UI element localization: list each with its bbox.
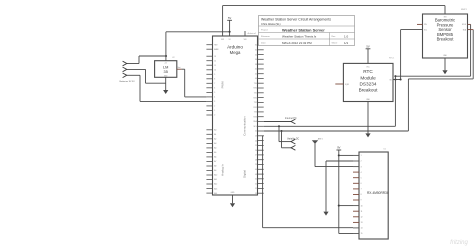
wire SDA long horizontal	[264, 125, 396, 127]
svg-text:M/Feb 2012 21:32 PM: M/Feb 2012 21:32 PM	[282, 41, 312, 45]
svg-text:13: 13	[361, 222, 363, 224]
pin BMP VIN left stub unconnected	[417, 23, 423, 25]
power +9V flag for radio	[336, 146, 341, 150]
power +5V flag above RTC	[366, 45, 371, 49]
svg-text:Date:: Date:	[261, 42, 266, 45]
svg-text:A6: A6	[214, 156, 216, 159]
wire 3V3 rail top horizontal	[223, 5, 445, 7]
svg-text:Mega: Mega	[230, 50, 241, 55]
wire SCL branch to aux pin	[282, 147, 292, 149]
svg-text:AREF: AREF	[214, 48, 219, 51]
svg-text:RST: RST	[214, 44, 217, 46]
svg-text:A8: A8	[214, 165, 216, 168]
ground GND below LM35	[163, 90, 168, 94]
svg-text:Variable DC: Variable DC	[287, 137, 300, 140]
wire LM35 Vs vertical	[165, 32, 167, 61]
wire 9V vertical rail	[338, 150, 340, 234]
pin RTC SQW stub	[335, 83, 343, 85]
power +5V flag above Arduino 5V pin	[227, 16, 232, 20]
sensor U2 LM35 body	[155, 61, 177, 78]
svg-text:BMP1: BMP1	[461, 9, 468, 11]
svg-text:1.0: 1.0	[344, 35, 349, 39]
svg-text:13: 13	[214, 56, 216, 58]
pin RTC SS stub wire	[393, 79, 401, 81]
svg-text:5: 5	[214, 92, 215, 94]
svg-text:RTC1: RTC1	[389, 58, 395, 60]
svg-text:Module: Module	[360, 75, 376, 80]
wire 9V to RX pin 15	[339, 233, 353, 235]
svg-text:ANT1: ANT1	[318, 138, 323, 141]
svg-text:22: 22	[255, 131, 257, 133]
svg-text:9: 9	[361, 200, 362, 202]
wire RTC GND down	[367, 102, 369, 134]
svg-text:Chris Abela (SL): Chris Abela (SL)	[261, 22, 281, 26]
svg-text:RTC: RTC	[363, 69, 373, 74]
svg-text:RX1: RX1	[254, 97, 257, 99]
wire antenna to RX pin 3	[315, 166, 353, 168]
wire LM35 Vout stub	[177, 68, 182, 70]
svg-text:TX0: TX0	[254, 83, 257, 85]
node junction net1 top	[394, 75, 396, 77]
svg-text:SCL: SCL	[424, 29, 427, 31]
svg-text:RX-4M50RR30: RX-4M50RR30	[367, 191, 389, 195]
RTC module RTC1 DS3234 breakout body	[343, 63, 393, 101]
wire 5V horizontal from LM35 supply	[166, 31, 230, 33]
svg-text:Batteries 9V 5V: Batteries 9V 5V	[120, 80, 136, 83]
svg-text:TX3: TX3	[254, 112, 257, 114]
svg-text:A2: A2	[214, 138, 216, 141]
svg-text:1: 1	[361, 155, 362, 157]
ground GND below RTC	[365, 133, 370, 137]
svg-text:Weather Station Server: Weather Station Server	[282, 27, 325, 32]
svg-text:Breakout: Breakout	[437, 37, 455, 42]
svg-text:15: 15	[361, 233, 363, 235]
svg-text:Sheet:: Sheet:	[332, 42, 338, 45]
wire 3V3 vertical to Arduino top pin	[222, 6, 224, 36]
pins Arduino left column with labels	[206, 44, 218, 194]
connector Internet PC pin	[291, 119, 295, 124]
wire header pin3 vertical	[139, 75, 141, 101]
svg-text:TX2: TX2	[254, 102, 257, 104]
svg-text:A7: A7	[214, 160, 216, 163]
svg-text:2: 2	[214, 106, 215, 108]
svg-text:7: 7	[214, 83, 215, 85]
svg-text:26: 26	[255, 150, 257, 152]
svg-text:A9: A9	[214, 169, 216, 172]
wire BMP left pin2 vertical down to RTC SS	[400, 30, 402, 80]
svg-text:30: 30	[255, 45, 257, 47]
svg-text:Breakout: Breakout	[359, 88, 378, 93]
node junction LM35 supply	[165, 55, 167, 57]
radio receiver U1 RX-4M50R body	[359, 152, 388, 239]
svg-text:DS3234: DS3234	[360, 81, 377, 86]
svg-text:46: 46	[255, 169, 257, 171]
antenna ANT1 symbol	[312, 140, 318, 144]
wire radio data horizontal to RX pin 14	[263, 227, 353, 229]
wire header pin1 to LM35 supply horizontal	[139, 55, 166, 57]
svg-text:SCL: SCL	[254, 126, 257, 128]
svg-text:6: 6	[214, 88, 215, 90]
svg-text:14: 14	[361, 228, 363, 230]
svg-text:Project:: Project:	[261, 29, 268, 32]
svg-text:5V: 5V	[366, 45, 369, 49]
wire RX pin2 to ground horizontal	[326, 160, 353, 162]
svg-text:5: 5	[361, 177, 362, 179]
svg-text:A14: A14	[214, 192, 217, 195]
wire header pin3 horizontal	[127, 74, 140, 76]
ground GND below Arduino	[230, 203, 235, 207]
node junction RTC SS with I2C vertical	[394, 78, 396, 80]
pin BMP SCLK right stub	[468, 23, 471, 25]
svg-text:27: 27	[255, 155, 257, 157]
svg-text:12: 12	[214, 60, 216, 62]
svg-text:Digital: Digital	[243, 170, 247, 178]
sensor BMP1 barometric pressure BMP085 breakout body	[423, 14, 468, 58]
wire LM35 Vout vertical	[184, 69, 186, 97]
svg-text:52: 52	[255, 183, 257, 185]
svg-text:SS: SS	[389, 79, 391, 81]
svg-text:A12: A12	[214, 183, 217, 186]
svg-text:5V: 5V	[228, 16, 231, 20]
svg-text:A1: A1	[214, 133, 216, 136]
svg-text:Weather Station Server Circuit: Weather Station Server Circuit Arrangeme…	[261, 18, 331, 22]
svg-text:28: 28	[255, 159, 257, 161]
svg-text:RX3: RX3	[254, 116, 257, 118]
wire RX ground vertical	[325, 161, 327, 212]
svg-text:Communication: Communication	[243, 116, 247, 136]
svg-text:11: 11	[361, 211, 363, 213]
svg-text:3: 3	[361, 166, 362, 168]
svg-text:0: 0	[214, 115, 215, 117]
svg-text:50: 50	[255, 179, 257, 181]
wire 9V to RX pin 1	[339, 154, 353, 156]
svg-text:A13: A13	[214, 187, 217, 190]
svg-text:PWM: PWM	[221, 81, 225, 89]
svg-text:11: 11	[214, 65, 216, 67]
wire net2 vertical mid	[407, 79, 409, 131]
svg-text:25: 25	[255, 145, 257, 147]
wire BMP GND down	[444, 58, 446, 70]
wire net2 vertical right edge	[472, 30, 474, 79]
svg-text:A11: A11	[214, 178, 217, 181]
wire 5V vertical into Arduino 5V pin	[229, 20, 231, 36]
wire Arduino GND down	[232, 195, 234, 203]
wire SCL long horizontal	[264, 130, 409, 132]
microcontroller Arduino1 Arduino Mega body	[213, 36, 258, 195]
svg-text:A10: A10	[214, 174, 217, 177]
svg-text:fritzing: fritzing	[450, 240, 468, 246]
svg-text:3V3: 3V3	[444, 17, 447, 19]
wire header pin3 to Arduino analog pin	[140, 100, 206, 102]
svg-text:RX0: RX0	[254, 88, 257, 90]
wire 5V into RTC VCC pin	[367, 49, 369, 64]
svg-text:10: 10	[361, 205, 363, 207]
svg-text:36: 36	[255, 59, 257, 61]
node junction 9V to RX pin1	[338, 154, 340, 156]
svg-text:1/1: 1/1	[344, 41, 349, 45]
wire header pin1 stub	[127, 63, 139, 65]
wire antenna vertical	[314, 144, 316, 167]
connector J1 battery header pin 2	[123, 67, 127, 72]
svg-text:40: 40	[255, 69, 257, 71]
svg-text:Analog In: Analog In	[221, 164, 225, 176]
connector aux pin 1	[291, 139, 295, 144]
svg-text:9: 9	[214, 74, 215, 76]
svg-text:7: 7	[361, 189, 362, 191]
svg-text:TX1: TX1	[254, 93, 257, 95]
svg-text:3V3: 3V3	[221, 39, 224, 41]
svg-text:Internet PC: Internet PC	[285, 117, 297, 120]
wire net1 vertical right edge	[470, 24, 472, 76]
wire serial to Internet PC	[264, 121, 291, 123]
svg-text:Arduino1: Arduino1	[248, 32, 258, 35]
svg-text:34: 34	[255, 54, 257, 56]
wire net2 horizontal upper	[408, 78, 473, 80]
pins RX left column with numbers	[353, 155, 363, 235]
wire header pin2 to LM35 GND	[146, 82, 166, 84]
node junction 9V to RX pin10	[338, 205, 340, 207]
svg-text:9V: 9V	[337, 146, 340, 150]
svg-text:RX2: RX2	[254, 107, 257, 109]
pin BMP SDA right stub	[468, 29, 474, 31]
svg-text:32: 32	[255, 50, 257, 52]
title block frame	[259, 16, 355, 46]
wire header pin2 horizontal	[127, 68, 146, 70]
ground GND below BMP085	[442, 70, 447, 74]
svg-text:1: 1	[214, 110, 215, 112]
wire header pin2 vertical	[145, 69, 147, 83]
svg-text:8: 8	[361, 194, 362, 196]
wire LM35 GND pin down	[165, 77, 167, 90]
node junction SCL branch	[280, 130, 282, 132]
svg-text:A5: A5	[214, 151, 216, 154]
connector J1 battery header pin 1	[123, 61, 127, 66]
wire net1 horizontal upper	[395, 75, 470, 77]
wire radio data vertical from Arduino	[263, 135, 264, 137]
svg-text:35: 35	[164, 69, 168, 74]
svg-text:4: 4	[361, 172, 362, 174]
svg-text:8: 8	[214, 79, 215, 81]
svg-text:6: 6	[361, 183, 362, 185]
svg-text:29: 29	[255, 164, 257, 166]
node junction 5V at Arduino pin	[229, 31, 231, 33]
svg-text:44: 44	[255, 78, 257, 80]
svg-text:48: 48	[255, 174, 257, 176]
svg-text:A4: A4	[214, 147, 216, 150]
svg-text:51: 51	[255, 188, 257, 190]
svg-text:23: 23	[255, 136, 257, 138]
wire BMP left pin2 horizontal	[401, 29, 423, 31]
pin Arduino VIN top stub	[244, 31, 246, 36]
svg-text:2: 2	[361, 161, 362, 163]
svg-text:SQW: SQW	[345, 84, 349, 86]
svg-text:12: 12	[361, 217, 363, 219]
wire SDA branch to aux pin	[279, 141, 291, 143]
svg-text:+Vs: +Vs	[164, 63, 167, 65]
wire 9V to RX pin 10	[339, 205, 353, 207]
ground GND for radio	[323, 212, 328, 216]
node junction SDA branch	[278, 125, 280, 127]
svg-text:Weather Station Thesis.fz: Weather Station Thesis.fz	[282, 35, 317, 39]
wire LM35 Vout to Arduino analog pin	[185, 96, 207, 98]
svg-text:3: 3	[214, 101, 215, 103]
connector J1 battery header pin 3	[123, 73, 127, 78]
connector aux pin 2	[291, 145, 295, 150]
wire SCL branch vertical	[281, 131, 283, 148]
wire header pin1 vertical	[138, 56, 140, 64]
svg-text:4: 4	[214, 97, 215, 99]
svg-text:42: 42	[255, 73, 257, 75]
svg-text:Rev:: Rev:	[332, 36, 337, 38]
svg-text:53: 53	[255, 193, 257, 195]
svg-text:Filename:: Filename:	[261, 36, 271, 38]
pins Arduino right column with labels	[253, 45, 263, 195]
svg-text:A0: A0	[214, 129, 216, 132]
node junction RTC SS with BMP wire	[400, 78, 402, 80]
svg-text:38: 38	[255, 64, 257, 66]
wire SDA branch vertical	[278, 126, 280, 141]
svg-text:24: 24	[255, 140, 257, 142]
svg-text:10: 10	[214, 70, 216, 72]
wire net1 vertical mid	[394, 76, 396, 126]
svg-text:A3: A3	[214, 142, 216, 145]
wire BMP085 VCC top pin drop	[444, 6, 446, 14]
